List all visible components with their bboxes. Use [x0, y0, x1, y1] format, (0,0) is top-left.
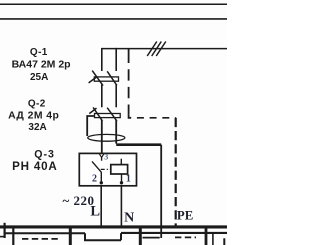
svg-text:2: 2	[92, 174, 97, 185]
breaker Q-1 link bar	[94, 77, 118, 81]
group box dashed left	[22, 238, 61, 240]
svg-text:РН 40А: РН 40А	[12, 160, 57, 173]
wire: L pole upper drop	[101, 48, 103, 71]
svg-text:Q-1: Q-1	[30, 47, 48, 58]
breaker Q-2 cross tick	[89, 108, 96, 114]
breaker Q-1 lever pole 1	[92, 71, 103, 86]
breaker Q-1 cross tick	[89, 77, 97, 83]
RCD trip linkage	[87, 116, 94, 136]
top border line 2	[0, 18, 227, 20]
relay terminal 3 arrow	[99, 154, 103, 158]
feeder tap v3	[69, 228, 72, 245]
N distribution bus right	[121, 232, 227, 234]
3-conductor slash marks	[147, 42, 166, 57]
input feeder bus	[102, 48, 227, 50]
svg-text:АД 2М 4р: АД 2М 4р	[8, 110, 59, 121]
group box dashed right	[175, 236, 196, 238]
feeder tap v6	[212, 233, 214, 245]
breaker Q-2 lever pole 1	[93, 107, 102, 121]
feeder tap v4	[139, 228, 142, 245]
relay contact blade	[92, 161, 101, 183]
svg-text:1: 1	[126, 174, 131, 185]
svg-text:32А: 32А	[28, 122, 46, 133]
relay coil bottom wire	[121, 174, 123, 183]
svg-text:PE: PE	[177, 208, 193, 222]
relay actuator dash-dot link	[101, 168, 111, 170]
RCD differential transformer oval	[88, 134, 125, 141]
relay fixed contact stub	[101, 157, 103, 161]
wire: N output to bus	[120, 186, 122, 226]
wire: L between Q-1 and Q-2	[101, 85, 103, 108]
L distribution bus	[0, 225, 227, 228]
wire: N elbow to right	[116, 143, 161, 146]
svg-text:Q-2: Q-2	[28, 98, 46, 109]
feeder tap v1 stub	[0, 236, 5, 238]
wire: N pole upper drop	[115, 48, 117, 71]
PE dashed drop to PE bus	[175, 118, 177, 228]
breaker Q-1 lever pole 2	[107, 71, 117, 85]
wire: N from Q-2 down	[115, 120, 117, 144]
breaker Q-2 link bar	[95, 114, 121, 118]
wire: N between Q-1 and Q-2	[115, 85, 117, 108]
relay terminal 2 dot	[100, 181, 103, 184]
PE dashed horizontal jog	[131, 117, 176, 119]
wire: L from Q-2 to relay	[101, 120, 103, 153]
top border line 1	[0, 3, 227, 5]
group box segment mid	[143, 237, 160, 239]
feeder tap v7	[223, 238, 225, 245]
svg-text:3: 3	[104, 153, 108, 162]
breaker Q-2 lever pole 2	[107, 108, 117, 121]
svg-text:N: N	[124, 211, 134, 226]
feeder tap v5	[205, 228, 208, 245]
wire: N drop to N bus	[160, 145, 162, 238]
svg-text:Q-3: Q-3	[34, 148, 55, 160]
relay coil top wire	[120, 159, 122, 165]
relay coil	[111, 165, 128, 174]
relay Q-3 enclosure box	[79, 153, 136, 185]
svg-text:ВА47 2М 2р: ВА47 2М 2р	[12, 59, 71, 71]
N bus jog up	[120, 233, 122, 240]
PE dashed drop from feeder	[128, 49, 130, 63]
relay terminal 1 dot	[120, 181, 123, 184]
feeder tap v1	[3, 223, 5, 238]
N bus jog down	[85, 233, 121, 240]
svg-text:L: L	[90, 204, 100, 220]
N distribution bus left	[4, 232, 85, 234]
wire: L output to bus	[100, 186, 102, 226]
svg-text:25А: 25А	[30, 72, 48, 83]
feeder tap v2	[12, 228, 14, 245]
